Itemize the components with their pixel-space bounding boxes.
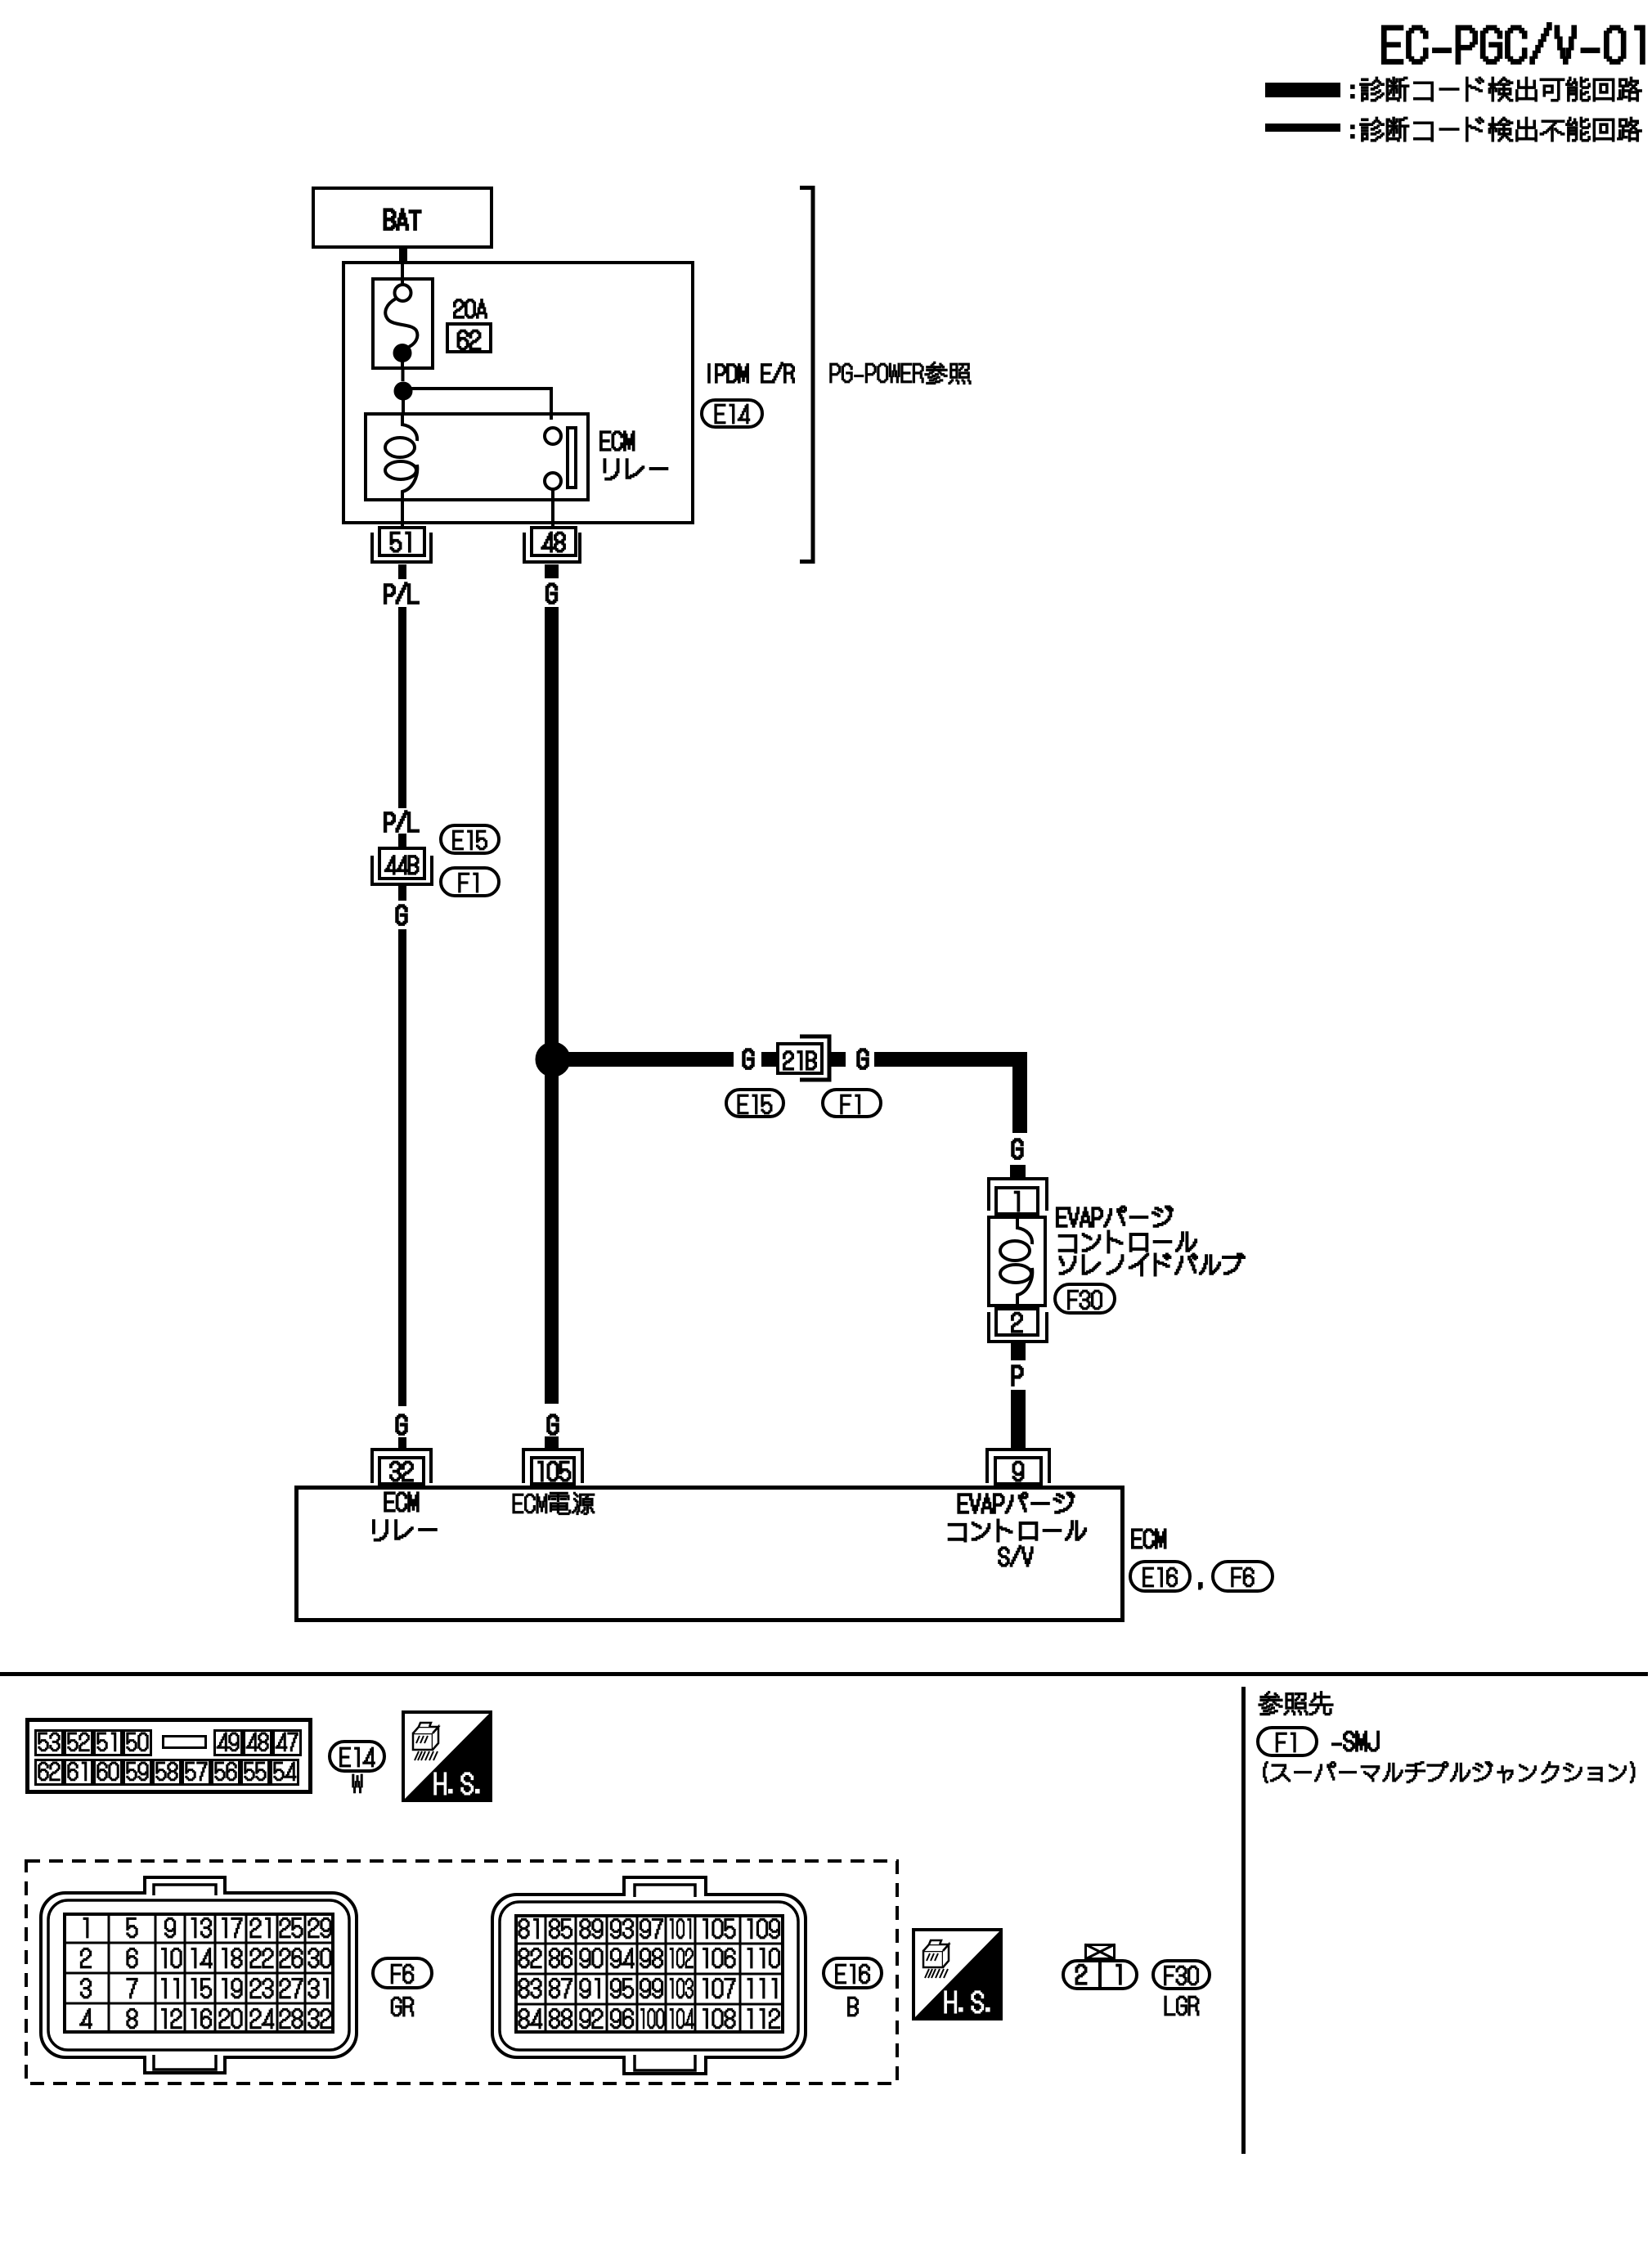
ECM 105 function label [513, 1492, 595, 1514]
connector F1 label (reference) [1276, 1733, 1295, 1752]
wire fuse to junction [402, 370, 405, 381]
EVAP valve label line2 [1059, 1230, 1197, 1252]
wire IPDM top to fuse [401, 263, 404, 285]
wire junction to 21B (G thick) [553, 1052, 734, 1067]
wire stub above ECM 105 [545, 1436, 559, 1449]
wire stub below EVAP pin 2 [1011, 1343, 1026, 1360]
terminal 105 box [532, 1458, 574, 1484]
connector F30 oval [1055, 1284, 1115, 1313]
ECM box [297, 1488, 1123, 1620]
terminal 48 box [532, 528, 576, 555]
connector 21B bracket [800, 1036, 829, 1080]
connector F6 label (ECM) [1232, 1567, 1254, 1587]
connector E16 pinout (81-112) [492, 1895, 806, 2057]
relay contact pin lower [545, 473, 561, 489]
wire stub above EVAP pin 1 [1010, 1165, 1026, 1178]
ECM 9 function label1 [958, 1492, 1074, 1513]
relay contact bar [568, 428, 576, 488]
EVAP valve pin 1 box [996, 1188, 1038, 1214]
wire color P/L upper [384, 582, 419, 603]
EVAP valve pin 1 bracket [989, 1179, 1047, 1211]
connector 44B label [385, 856, 419, 874]
wire stub below 51 [398, 564, 406, 579]
battery BAT box [313, 188, 492, 247]
wire junction to relay contact [403, 389, 551, 420]
terminal 51 bracket [372, 533, 431, 562]
relay coil [402, 412, 417, 441]
connector F30 oval (pinout) [1153, 1961, 1210, 1989]
connector 44B bracket [372, 856, 432, 884]
comma between E16 F6 [1199, 1583, 1202, 1589]
reference heading [1259, 1692, 1333, 1715]
relay contact pin upper [545, 428, 561, 444]
wire stub left of 21B [761, 1052, 776, 1067]
dashed group box [26, 1861, 897, 2083]
ECM 9 function label3 [999, 1545, 1033, 1566]
connector E16 label (pinout) [836, 1964, 870, 1984]
EVAP valve label line3 [1059, 1253, 1245, 1275]
connector F30 label (pinout) [1165, 1966, 1199, 1985]
wire color G after 21B [857, 1049, 868, 1068]
wire relay contact lower to terminal 48 [551, 489, 554, 526]
IPDM E/R box E14 [343, 263, 693, 523]
legend thick bar (detectable circuit) [1265, 83, 1340, 97]
connector 44B box [379, 848, 424, 879]
connector E14 label (pinout) [340, 1747, 375, 1767]
wire stub below 48 [545, 564, 559, 578]
bracket PG-POWER [800, 188, 813, 562]
wire color P [1012, 1365, 1022, 1385]
connector F6 oval (ECM) [1213, 1562, 1273, 1591]
connector F1 oval (horizontal) [823, 1090, 881, 1117]
connector E16 oval (ECM) [1130, 1562, 1190, 1591]
fuse number 62 [457, 330, 480, 349]
connector F1 label (horizontal) [841, 1095, 860, 1114]
wire color G above ECM 32 [396, 1414, 406, 1434]
ECM label [1132, 1529, 1166, 1549]
terminal 9 box [995, 1458, 1041, 1484]
connector F30 bowtie symbol [1086, 1945, 1115, 1959]
EVAP valve label line1 [1057, 1206, 1173, 1226]
legend text detectable [1351, 77, 1642, 101]
connector E16 oval (pinout) [824, 1958, 882, 1988]
connector E15 oval (left) [441, 825, 499, 853]
wire BAT to IPDM (thick stub) [399, 247, 407, 263]
terminal 48 label [541, 532, 565, 551]
wire EVAP valve to ECM 9 (P thick) [1011, 1390, 1026, 1448]
H.S. mark (bottom) [912, 1928, 1003, 2020]
connector F30 label [1068, 1290, 1102, 1310]
terminal 51 box [379, 528, 424, 555]
wire stub below 44B [398, 886, 406, 901]
connector F6 color GR [391, 1997, 413, 2016]
fuse element [395, 285, 411, 301]
EVAP valve coil [1017, 1217, 1032, 1244]
connector E14 color W [352, 1774, 362, 1793]
ECM 32 function label1 [384, 1492, 419, 1512]
wire 44B to ECM 32 (G) [398, 929, 406, 1406]
title EC-PGC/V-01 [1382, 23, 1644, 63]
connector E14 label [715, 404, 750, 424]
terminal 51 label [390, 532, 411, 551]
connector F6 label (pinout) [391, 1964, 413, 1984]
wire 21B to EVAP valve (G thick) [874, 1052, 1027, 1067]
wire color G before 21B [743, 1049, 753, 1068]
H.S. mark (top) [402, 1710, 492, 1802]
terminal 9 bracket [987, 1450, 1049, 1483]
connector E15 oval (horizontal) [726, 1090, 783, 1117]
junction node below fuse [394, 382, 412, 400]
connector F6 oval (pinout) [373, 1958, 432, 1988]
terminal 105 label [538, 1461, 571, 1481]
reference section divider [1241, 1687, 1246, 2154]
relay label relay(kana) [604, 459, 667, 479]
IPDM E/R label [708, 362, 794, 383]
connector F1 oval (left) [441, 868, 499, 896]
terminal 32 box [379, 1458, 424, 1484]
EVAP valve pin 1 label [1015, 1191, 1020, 1211]
connector 21B box [778, 1044, 822, 1073]
connector F30 pinout (2|1) [1063, 1961, 1137, 1989]
EVAP purge control solenoid valve body [989, 1217, 1045, 1306]
fuse number 62 box [447, 324, 491, 352]
connector E16 color B [848, 1997, 859, 2016]
wire color P/L lower [384, 811, 419, 831]
wire stub right of 21B [831, 1052, 846, 1067]
terminal 32 label [390, 1461, 413, 1481]
wire stub above ECM 32 [398, 1437, 406, 1449]
fuse rating 20A [454, 299, 487, 318]
battery BAT label [384, 209, 421, 230]
fuse 20A box [373, 279, 433, 368]
terminal 105 bracket [523, 1450, 582, 1483]
separator line [0, 1672, 1648, 1676]
wire color G left [396, 905, 406, 924]
wire 48 to ECM 105 (G thick) [545, 607, 559, 1404]
ECM 9 function label2 [949, 1519, 1087, 1541]
EVAP valve pin 2 bracket [989, 1312, 1047, 1342]
wire junction to relay coil [402, 400, 405, 412]
junction node on G wire [536, 1042, 570, 1077]
wire stub above 44B [398, 834, 406, 847]
wire 51 to 44B (P/L) [398, 607, 406, 808]
terminal 32 bracket [372, 1450, 431, 1483]
wire color G above ECM 105 [547, 1414, 558, 1434]
connector F1 oval (reference) [1258, 1728, 1317, 1755]
connector 21B label [783, 1051, 816, 1070]
connector F30 color LGR [1165, 1996, 1199, 2016]
reference SMJ note [1264, 1762, 1635, 1783]
terminal 9 label [1012, 1461, 1023, 1481]
terminal 48 bracket [524, 533, 580, 562]
connector F1 label (left) [459, 873, 478, 892]
reference F1 -SMJ [1332, 1731, 1379, 1751]
PG-POWER reference label [830, 362, 971, 384]
ECM 32 function label2 [373, 1520, 437, 1540]
legend text non-detectable [1351, 117, 1642, 142]
connector E14 oval (pinout) [330, 1742, 384, 1771]
connector E15 label (horizontal) [738, 1095, 772, 1114]
wire color G right upper [546, 583, 557, 603]
ECM relay box [366, 414, 588, 500]
EVAP valve pin 2 label [1012, 1312, 1022, 1332]
connector E16 label (ECM) [1143, 1567, 1178, 1587]
wire color G above EVAP valve [1012, 1139, 1022, 1158]
wire relay coil to terminal 51 [401, 501, 404, 526]
legend thin bar (non-detectable circuit) [1265, 124, 1340, 132]
EVAP valve pin 2 box [996, 1309, 1038, 1335]
connector E14 pinout grid [28, 1720, 311, 1792]
connector E14 oval [702, 400, 762, 427]
connector E15 label (left) [453, 830, 487, 850]
connector F6 pinout (1-32) [41, 1893, 357, 2057]
relay label ECM [600, 431, 635, 451]
